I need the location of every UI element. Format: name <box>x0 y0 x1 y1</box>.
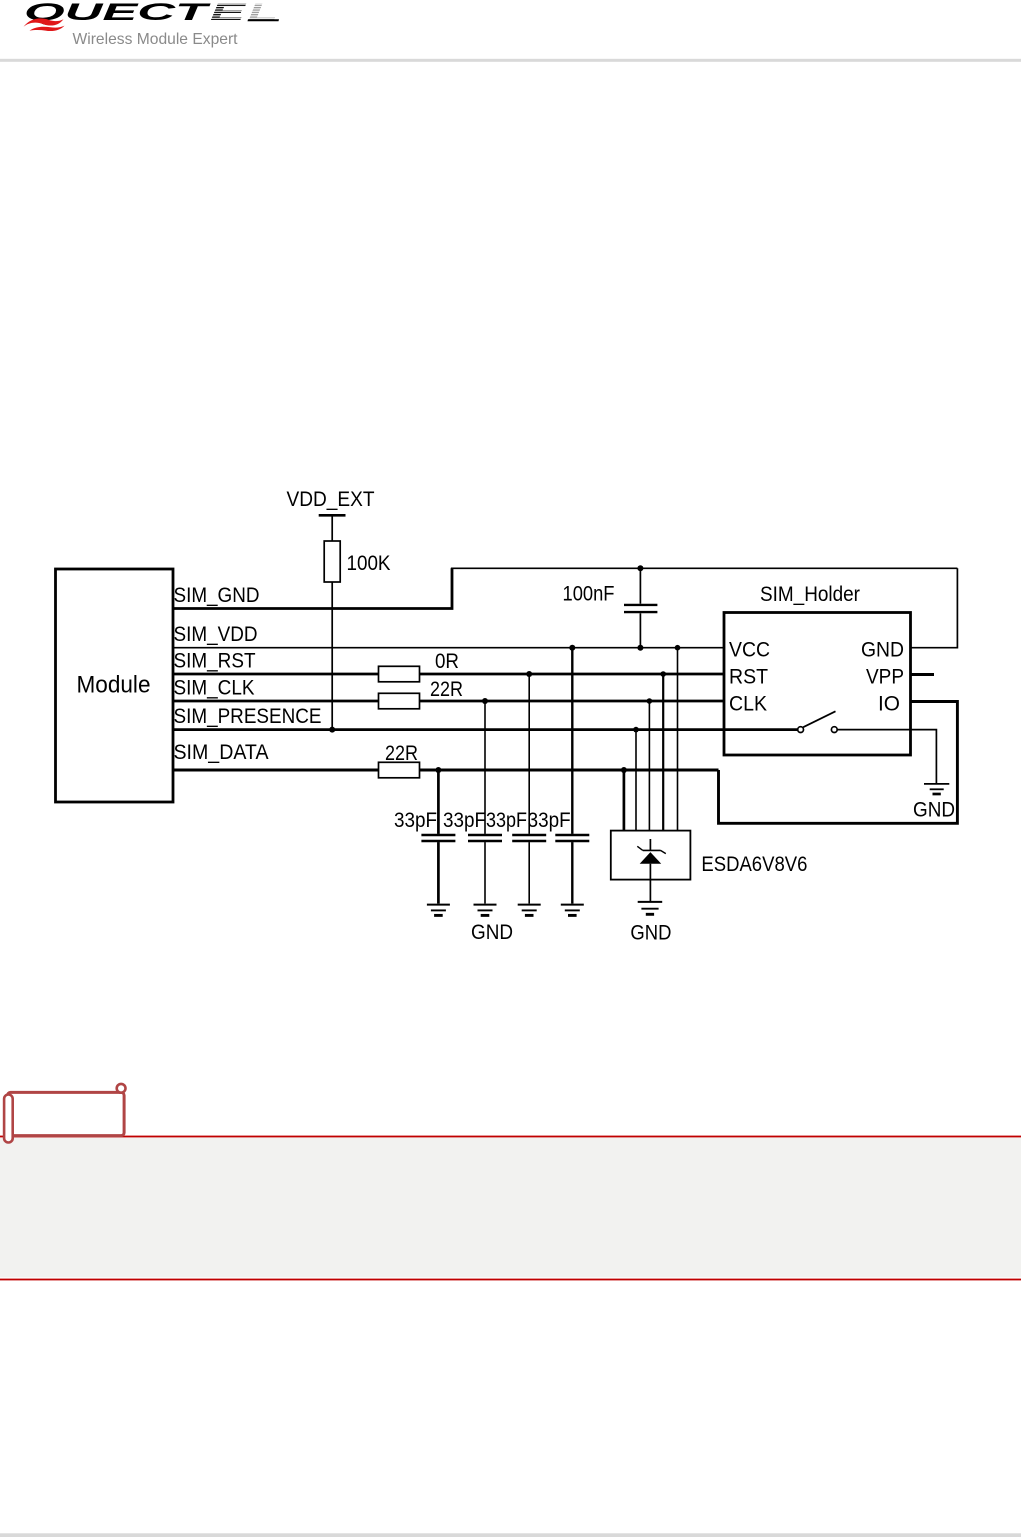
ground symbol C2 <box>474 905 497 916</box>
svg-text:IO: IO <box>878 693 900 716</box>
capacitor C1 33pF on SIM_DATA <box>421 767 455 904</box>
wire VDD_EXT to resistor <box>331 515 333 541</box>
svg-text:SIM_VDD: SIM_VDD <box>174 623 258 646</box>
header rule <box>0 59 1021 62</box>
svg-text:VDD_EXT: VDD_EXT <box>287 488 375 511</box>
wire SIM_RST right <box>419 673 724 676</box>
wire ESD to SIM_PRESENCE <box>633 727 639 831</box>
SIM_Holder box <box>724 613 911 756</box>
Quectel logo wordmark <box>24 0 278 26</box>
svg-text:33pF: 33pF <box>443 809 486 832</box>
svg-text:100K: 100K <box>347 552 391 575</box>
svg-text:SIM_GND: SIM_GND <box>174 584 260 607</box>
wire resistor to SIM_PRESENCE <box>331 582 333 730</box>
svg-text:L: L <box>248 0 278 26</box>
svg-text:CLK: CLK <box>729 693 767 716</box>
notes scroll icon <box>4 1084 125 1143</box>
wire ESD to ground <box>649 880 651 902</box>
svg-text:SIM_DATA: SIM_DATA <box>174 741 269 764</box>
svg-text:GND: GND <box>630 922 671 945</box>
logo red swoosh <box>24 18 280 31</box>
wire top rail <box>451 567 958 569</box>
capacitor 100nF <box>624 565 657 650</box>
svg-text:SIM_Holder: SIM_Holder <box>760 583 860 606</box>
capacitor C2 33pF on SIM_CLK <box>468 698 502 904</box>
wire SIM_VDD to VCC <box>173 647 724 649</box>
svg-text:Wireless Module Expert: Wireless Module Expert <box>73 31 239 48</box>
wire ESD to SIM_DATA <box>621 767 627 831</box>
note band bottom rule <box>0 1279 1021 1281</box>
svg-text:GND: GND <box>913 799 955 822</box>
svg-text:GND: GND <box>861 639 904 662</box>
ground symbol C4 <box>561 905 584 916</box>
svg-text:33pF: 33pF <box>528 809 571 832</box>
module box <box>56 569 174 802</box>
svg-text:SIM_PRESENCE: SIM_PRESENCE <box>174 705 322 728</box>
wire ESD to SIM_RST <box>660 671 666 830</box>
svg-text:100nF: 100nF <box>563 583 615 606</box>
ground symbol (SIM holder) <box>924 784 949 794</box>
wire SIM_CLK right <box>419 700 724 703</box>
wire VPP stub <box>911 673 935 676</box>
VDD_EXT power bar <box>319 514 346 517</box>
svg-text:SIM_RST: SIM_RST <box>174 650 256 673</box>
footer rule <box>0 1533 1021 1537</box>
TVS diode symbol <box>637 839 666 880</box>
ground symbol C3 <box>518 905 541 916</box>
ground symbol C1 <box>427 905 450 916</box>
wire SIM_GND <box>173 568 452 608</box>
resistor 22R body (DATA) <box>379 762 420 778</box>
note band <box>0 1138 1021 1278</box>
wire SIM_PRESENCE <box>173 728 798 731</box>
wire ESD to SIM_CLK <box>647 698 653 830</box>
ESD array box U1 <box>611 831 691 880</box>
resistor 0R body <box>379 666 420 682</box>
ground symbol (ESD) <box>638 902 663 914</box>
wire SIM_DATA loop to IO <box>719 702 958 824</box>
svg-text:Module: Module <box>77 672 151 699</box>
capacitor C3 33pF on SIM_RST <box>512 671 546 904</box>
wire GND pin to top rail <box>911 568 958 647</box>
note band top rule <box>0 1136 1021 1138</box>
switch SIM presence <box>798 711 838 732</box>
capacitor C4 33pF on SIM_VDD <box>555 645 589 904</box>
svg-text:RST: RST <box>729 666 768 689</box>
wire switch to ground <box>837 730 936 784</box>
wire ESD to SIM_VDD <box>675 645 681 831</box>
svg-text:E: E <box>210 0 247 26</box>
svg-text:VCC: VCC <box>729 639 770 662</box>
svg-text:VPP: VPP <box>866 666 904 689</box>
svg-text:22R: 22R <box>430 678 463 701</box>
svg-text:33pF: 33pF <box>486 809 527 832</box>
svg-text:33pF: 33pF <box>394 809 437 832</box>
resistor 100K body <box>324 541 340 582</box>
wire SIM_CLK left <box>173 700 379 703</box>
resistor 22R body (CLK) <box>379 693 420 709</box>
wire SIM_DATA left <box>173 769 379 772</box>
svg-text:ESDA6V8V6: ESDA6V8V6 <box>701 853 807 876</box>
wire SIM_DATA right <box>419 769 718 772</box>
svg-text:0R: 0R <box>435 650 459 673</box>
junction dot pull-up on SIM_PRESENCE <box>329 727 335 733</box>
svg-text:GND: GND <box>471 921 513 944</box>
wire SIM_RST left <box>173 673 379 676</box>
svg-text:SIM_CLK: SIM_CLK <box>174 677 255 700</box>
